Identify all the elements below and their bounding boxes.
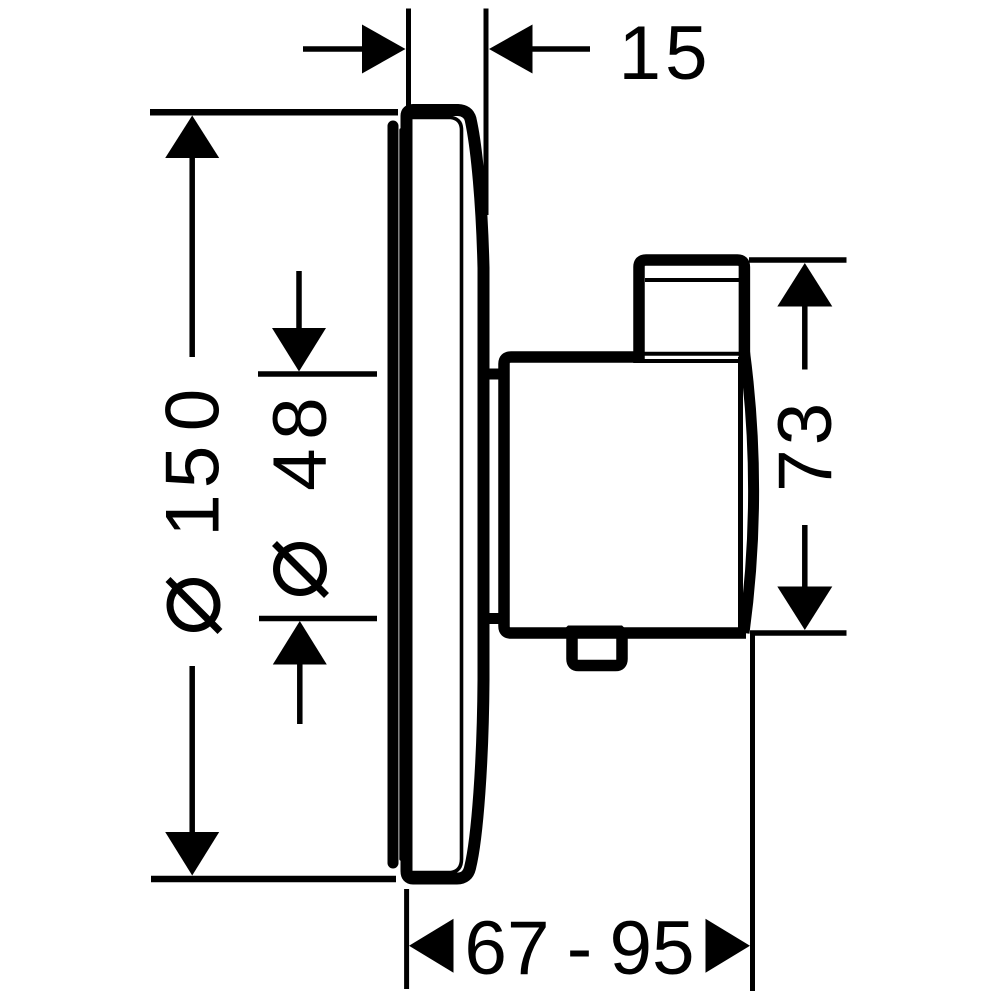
dim 73: up arrow — [777, 263, 832, 307]
dim D48: top line — [258, 371, 377, 377]
dim D150: bottom arrow — [165, 832, 219, 876]
valve body right bulged contour — [744, 351, 754, 633]
svg-text:0: 0 — [151, 389, 236, 432]
svg-text:3: 3 — [763, 403, 848, 446]
dim 73: bottom extension line — [750, 630, 847, 636]
dim D150: top arrow — [165, 116, 219, 159]
svg-text:4: 4 — [258, 448, 343, 491]
connector nub bottom — [486, 613, 501, 624]
dim 15: left arrow — [303, 46, 366, 52]
svg-text:5: 5 — [151, 446, 236, 489]
dim D48: top arrow — [296, 271, 302, 333]
svg-text:7: 7 — [763, 449, 848, 492]
dim D48: bottom line — [259, 616, 377, 622]
dim 67-95: right extension line — [750, 631, 755, 991]
dim 73: label — [763, 403, 848, 492]
spindle box — [639, 260, 744, 363]
dim 15: left extension line — [406, 9, 411, 107]
svg-text:67 - 95: 67 - 95 — [464, 906, 694, 991]
wall sleeve behind escutcheon — [393, 126, 401, 863]
valve body outline — [504, 357, 746, 633]
dim 15: right arrow — [489, 25, 533, 74]
dim D150: label — [151, 389, 236, 632]
dim D48: label — [258, 397, 343, 595]
dim 67-95: left extension line — [404, 889, 409, 989]
dim 67-95: right arrow — [706, 919, 751, 973]
dim 73: top extension line — [749, 257, 847, 263]
svg-text:15: 15 — [618, 11, 711, 96]
svg-text:1: 1 — [151, 494, 236, 537]
dim 67-95: left arrow — [409, 919, 454, 973]
svg-text:8: 8 — [258, 397, 343, 440]
body top edge seen behind spindle (double thin) — [644, 352, 739, 356]
escutcheon plate outer outline — [407, 110, 484, 879]
bottom outlet tab — [572, 631, 622, 666]
bottom outlet bump — [556, 626, 634, 638]
dim 73: down arrow — [777, 587, 832, 631]
valve body cylinder edge (thin straight) — [738, 357, 743, 628]
dim D48: bottom arrow — [273, 621, 327, 665]
escutcheon plate inner face line — [410, 118, 462, 873]
spindle inner line — [645, 278, 739, 282]
dim D150: top extension line — [150, 109, 398, 116]
dim 15: right extension line — [484, 9, 489, 216]
dim D150: bottom extension line — [151, 876, 396, 883]
connector nub top — [486, 369, 501, 380]
